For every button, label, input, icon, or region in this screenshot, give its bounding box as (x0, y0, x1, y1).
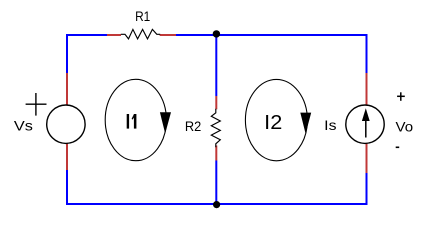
svg-text:Vo: Vo (396, 118, 414, 134)
svg-text:I2: I2 (264, 112, 282, 134)
svg-text:Vs: Vs (14, 118, 33, 134)
svg-text:R1: R1 (135, 8, 150, 24)
svg-text:Is: Is (324, 117, 336, 133)
svg-text:R2: R2 (185, 118, 202, 134)
